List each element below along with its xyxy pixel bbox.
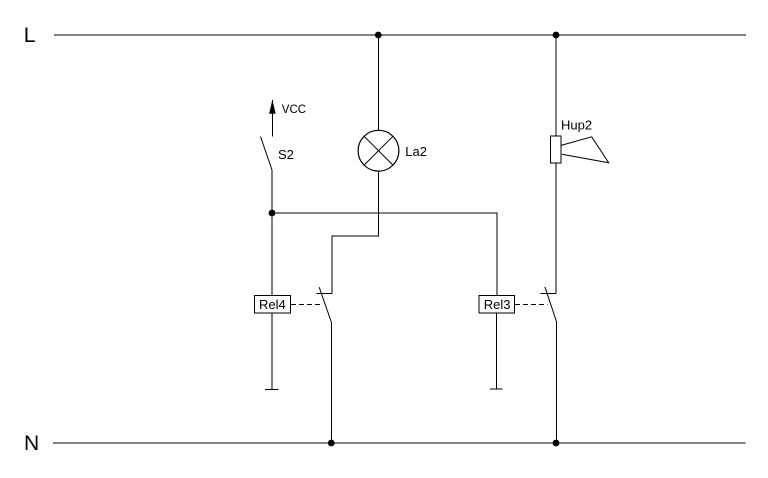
- terminal tick Rel4 stub: [265, 389, 279, 391]
- wire L rail: [54, 34, 746, 36]
- svg-text:VCC: VCC: [282, 104, 306, 116]
- junction dot at N rail / right contact branch: [553, 440, 560, 447]
- dashed link Rel4 to contact: [291, 304, 323, 306]
- wire horn to right contact: [555, 163, 557, 294]
- wire horn top: [555, 35, 557, 136]
- left contact fixed tick: [316, 293, 332, 295]
- svg-text:L: L: [24, 24, 36, 47]
- wire lamp top: [377, 35, 379, 130]
- lamp La2 circle: [358, 130, 399, 171]
- wire S2 to Rel4: [271, 170, 273, 296]
- svg-text:Rel4: Rel4: [259, 297, 286, 312]
- left contact blade: [319, 287, 331, 322]
- wire lamp branch left: [332, 235, 379, 237]
- wire Rel3 coil stub: [496, 313, 498, 389]
- junction dot at L rail / lamp branch: [375, 32, 382, 39]
- relay coil Rel4: [255, 296, 291, 314]
- svg-text:Hup2: Hup2: [561, 118, 592, 133]
- wire right contact to N: [555, 322, 557, 443]
- right contact fixed tick: [541, 293, 557, 295]
- wire down to Rel3 coil: [496, 213, 498, 296]
- wire Rel4 coil stub: [271, 313, 273, 390]
- right contact blade: [545, 287, 557, 322]
- VCC arrow: [272, 100, 274, 136]
- wire down to left contact: [331, 236, 333, 294]
- terminal tick Rel3 stub: [490, 388, 503, 390]
- wire left contact to N: [330, 322, 332, 443]
- junction dot at L rail / horn branch: [553, 32, 560, 39]
- junction dot at N rail / left contact branch: [328, 440, 335, 447]
- junction dot at S2 / horizontal link: [269, 210, 276, 217]
- horn Hup2 body: [551, 136, 562, 163]
- svg-text:S2: S2: [278, 147, 294, 162]
- relay coil Rel3: [479, 296, 515, 314]
- switch S2 blade: [261, 137, 273, 171]
- horn Hup2 bell: [561, 137, 609, 163]
- wire horizontal link: [272, 212, 497, 214]
- wire N rail: [53, 442, 746, 444]
- wire lamp bottom: [377, 171, 379, 236]
- lamp La2 cross: [364, 136, 393, 165]
- dashed link Rel3 to contact: [515, 304, 548, 306]
- svg-text:N: N: [24, 432, 39, 455]
- svg-text:La2: La2: [405, 144, 427, 159]
- svg-text:Rel3: Rel3: [484, 297, 511, 312]
